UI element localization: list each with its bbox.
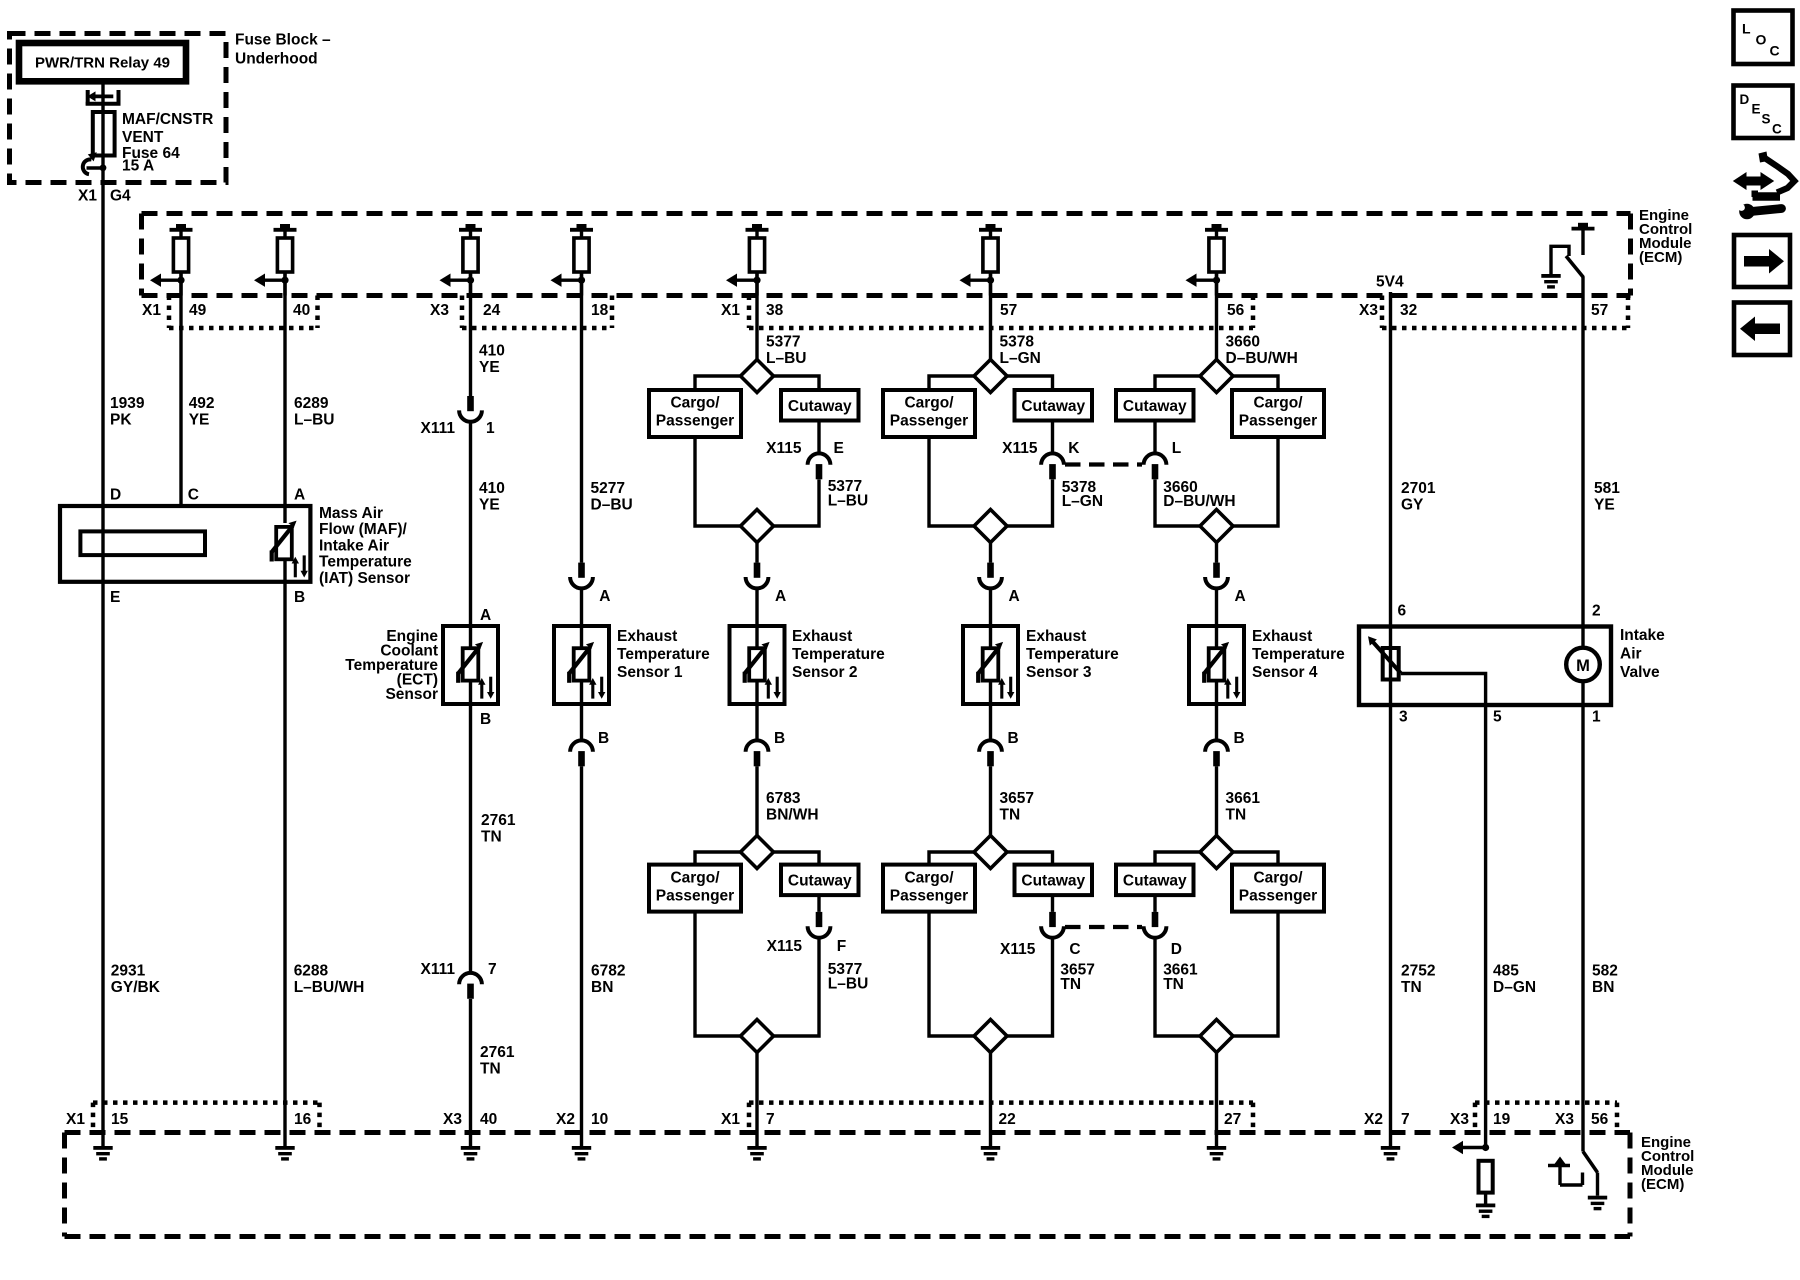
svg-text:BN: BN bbox=[591, 979, 613, 996]
ECM bottom dashed enclosure bbox=[65, 1133, 1631, 1237]
svg-text:Passenger: Passenger bbox=[890, 887, 968, 904]
exhaust temperature sensor 3 internal wire bbox=[989, 626, 992, 649]
ECM bottom connector strip X3 pin 40 bbox=[443, 1111, 497, 1128]
dashed link X115 C to D bbox=[1065, 925, 1142, 929]
wire K to merge W7 bbox=[1007, 480, 1053, 527]
wire label 410 YE upper bbox=[479, 342, 505, 376]
wire label 581 YE bbox=[1594, 480, 1620, 514]
svg-text:K: K bbox=[1068, 440, 1080, 457]
splice diamond W6 top split bbox=[741, 360, 774, 393]
option box Cutaway W6 bottom bbox=[781, 865, 859, 896]
svg-text:Cargo/: Cargo/ bbox=[670, 395, 720, 412]
wire into sensor 2 bbox=[755, 588, 758, 626]
svg-text:18: 18 bbox=[591, 302, 609, 319]
svg-text:5377: 5377 bbox=[766, 333, 800, 350]
svg-text:Passenger: Passenger bbox=[1239, 887, 1317, 904]
wire 3660 D-BU/WH pin 56 to splice bbox=[1215, 272, 1218, 360]
svg-text:1: 1 bbox=[486, 420, 495, 437]
wire 485 D-GN valve pin 5 to ECM pin 19 bbox=[1484, 703, 1487, 1148]
ECM bottom connector strip X2 pin 7 bbox=[1364, 1111, 1410, 1128]
option box Cutaway W7 top bbox=[1015, 390, 1093, 421]
splice diamond W6 bottom split bbox=[741, 836, 774, 869]
svg-text:Sensor 1: Sensor 1 bbox=[617, 664, 683, 681]
ground at ECM pin 19 bbox=[1476, 1204, 1495, 1219]
wire 5378 L-GN pin 57 to splice bbox=[989, 272, 992, 360]
icon LOC bbox=[1734, 11, 1793, 65]
svg-text:A: A bbox=[294, 487, 305, 504]
wire Cargo branch down W7 bottom bbox=[929, 912, 974, 1036]
svg-text:L: L bbox=[1172, 440, 1181, 457]
ECM top connector strip X1 pins 38 57 56 bbox=[721, 296, 1253, 329]
svg-text:Valve: Valve bbox=[1620, 664, 1660, 681]
wire F to merge W6 bottom bbox=[774, 938, 820, 1036]
svg-text:L–BU/WH: L–BU/WH bbox=[294, 979, 365, 996]
svg-text:3657: 3657 bbox=[1000, 790, 1034, 807]
svg-text:X3: X3 bbox=[430, 302, 449, 319]
wire label 492 YE bbox=[189, 395, 215, 429]
wire 5377 L-BU pin 38 to splice bbox=[755, 272, 758, 360]
connector A sensor 4 bbox=[1205, 563, 1228, 589]
connector A sensor 1 bbox=[570, 563, 593, 589]
ECM bottom connector strip X1 pins 15 16 bbox=[66, 1103, 320, 1133]
valve wiper wire to pin 5 bbox=[1401, 674, 1486, 705]
svg-text:56: 56 bbox=[1591, 1111, 1609, 1128]
svg-text:15 A: 15 A bbox=[122, 158, 154, 175]
svg-text:Temperature: Temperature bbox=[792, 646, 885, 663]
svg-text:X1: X1 bbox=[78, 188, 97, 205]
wire merge to ECM pin 22 bbox=[989, 1053, 992, 1147]
svg-text:2752: 2752 bbox=[1401, 962, 1435, 979]
branch wire to Cargo left W6 bbox=[695, 376, 741, 390]
svg-text:F: F bbox=[837, 938, 846, 955]
svg-text:5: 5 bbox=[1493, 709, 1502, 726]
ECM bottom connector strip X2 pin 10 bbox=[556, 1111, 608, 1128]
splice diamond W8 top merge bbox=[1200, 510, 1233, 543]
svg-text:A: A bbox=[1009, 588, 1020, 605]
exhaust temperature sensor 1 thermistor bbox=[569, 642, 605, 699]
label Exhaust Temperature Sensor 4 bbox=[1252, 628, 1345, 681]
svg-text:YE: YE bbox=[189, 411, 210, 428]
wire merge to connector A sensor 2 bbox=[755, 543, 758, 563]
ground at ECM pin 22 bbox=[981, 1146, 1000, 1161]
wire label 582 BN bbox=[1592, 962, 1618, 996]
svg-text:B: B bbox=[294, 589, 305, 606]
wire 410 YE X111 to ECT sensor bbox=[469, 422, 472, 626]
svg-text:6288: 6288 bbox=[294, 962, 329, 979]
svg-text:Cutaway: Cutaway bbox=[1021, 872, 1085, 889]
svg-text:D–BU/WH: D–BU/WH bbox=[1226, 350, 1298, 367]
wire label 5377 L-BU at F bbox=[828, 961, 868, 992]
wire label 5378 L-GN at K bbox=[1062, 479, 1103, 510]
svg-text:Cargo/: Cargo/ bbox=[1253, 395, 1303, 412]
label Exhaust Temperature Sensor 1 bbox=[617, 628, 710, 681]
svg-text:Temperature: Temperature bbox=[319, 554, 412, 571]
valve potentiometer bbox=[1368, 626, 1401, 704]
svg-text:Passenger: Passenger bbox=[890, 413, 968, 430]
branch wire to Cargo left W7 bottom bbox=[929, 852, 974, 865]
connector X111 pin 1 bbox=[459, 396, 482, 422]
svg-text:Passenger: Passenger bbox=[656, 413, 734, 430]
svg-text:PWR/TRN Relay 49: PWR/TRN Relay 49 bbox=[35, 55, 170, 72]
wire Cargo branch down W6 top bbox=[695, 437, 741, 526]
svg-text:10: 10 bbox=[591, 1111, 608, 1128]
option box Cutaway W6 top bbox=[781, 390, 859, 421]
svg-text:19: 19 bbox=[1493, 1111, 1511, 1128]
svg-text:A: A bbox=[775, 588, 786, 605]
fuse MAF/CNSTR VENT Fuse 64 15 A bbox=[93, 111, 213, 175]
wire 3661 TN to splice bbox=[1215, 766, 1218, 835]
ground at ECM pin 16 bbox=[275, 1146, 294, 1161]
option box Cargo/Passenger W7 bottom bbox=[883, 865, 975, 912]
valve motor M bbox=[1566, 626, 1600, 704]
wire label 2701 GY bbox=[1401, 480, 1436, 514]
fusible link hook symbol bbox=[83, 152, 107, 174]
svg-text:X1: X1 bbox=[66, 1111, 85, 1128]
svg-text:GY: GY bbox=[1401, 496, 1424, 513]
splice diamond W8 bottom split bbox=[1200, 836, 1233, 869]
svg-text:7: 7 bbox=[1401, 1111, 1410, 1128]
svg-text:L: L bbox=[1742, 21, 1751, 37]
svg-text:X1: X1 bbox=[721, 302, 740, 319]
svg-text:TN: TN bbox=[1000, 806, 1021, 823]
wire label 3660 D-BU/WH at L bbox=[1163, 479, 1235, 510]
svg-text:TN: TN bbox=[1401, 979, 1422, 996]
relay PWR/TRN Relay 49 bbox=[19, 43, 186, 81]
wire Cargo branch down W8 bottom bbox=[1233, 912, 1278, 1036]
svg-text:D: D bbox=[110, 487, 121, 504]
svg-text:40: 40 bbox=[293, 302, 310, 319]
ECM top connector strip X3 pins 24 18 bbox=[430, 296, 612, 329]
svg-text:M: M bbox=[1576, 657, 1590, 675]
icon arrow left bbox=[1734, 303, 1790, 356]
ECM driver output pin 57 bbox=[960, 224, 1003, 296]
svg-text:Exhaust: Exhaust bbox=[1026, 628, 1086, 645]
wire label 3660 D-BU/WH top bbox=[1226, 333, 1298, 367]
svg-text:485: 485 bbox=[1493, 962, 1519, 979]
svg-text:Cargo/: Cargo/ bbox=[904, 869, 954, 886]
svg-text:X3: X3 bbox=[1555, 1111, 1574, 1128]
wire Cargo branch down W8 top bbox=[1233, 437, 1278, 526]
svg-text:3: 3 bbox=[1399, 709, 1408, 726]
bus bar bracket bbox=[86, 90, 121, 106]
svg-text:Flow (MAF)/: Flow (MAF)/ bbox=[319, 521, 408, 538]
icon arrow right bbox=[1734, 235, 1790, 287]
svg-text:B: B bbox=[598, 730, 609, 747]
svg-text:Sensor: Sensor bbox=[385, 686, 438, 703]
ECM top connector strip X1 pins 49 40 bbox=[142, 296, 318, 329]
wire E to merge W6 bbox=[774, 480, 820, 527]
wire 6782 BN to ECM pin 10 bbox=[580, 766, 583, 1146]
wire C to merge W7 bottom bbox=[1007, 938, 1053, 1036]
svg-text:2761: 2761 bbox=[480, 1044, 515, 1061]
ECM resistor at pin 19 bbox=[1479, 1161, 1493, 1193]
svg-text:Temperature: Temperature bbox=[1252, 646, 1345, 663]
svg-text:B: B bbox=[774, 730, 785, 747]
svg-text:1939: 1939 bbox=[110, 395, 145, 412]
ground at ECM pin 7 bbox=[747, 1146, 766, 1161]
svg-text:2701: 2701 bbox=[1401, 480, 1436, 497]
ECT sensor box bbox=[443, 626, 498, 704]
valve pin numbers bottom bbox=[1399, 709, 1601, 726]
svg-text:E: E bbox=[1752, 102, 1761, 117]
exhaust temperature sensor 3 box bbox=[963, 626, 1018, 704]
svg-text:L–BU: L–BU bbox=[294, 411, 334, 428]
connector B sensor 1 bbox=[580, 704, 583, 741]
connector X115 pin C bbox=[1041, 912, 1064, 938]
svg-text:TN: TN bbox=[481, 828, 502, 845]
svg-text:L–GN: L–GN bbox=[1000, 350, 1041, 367]
option box Cargo/Passenger W8 top bbox=[1232, 390, 1324, 437]
svg-text:Underhood: Underhood bbox=[235, 51, 318, 68]
branch wire to Cutaway right W6 bottom bbox=[774, 852, 820, 865]
svg-text:Mass Air: Mass Air bbox=[319, 505, 383, 522]
svg-text:(ECM): (ECM) bbox=[1641, 1176, 1684, 1193]
svg-text:VENT: VENT bbox=[122, 129, 164, 146]
svg-text:Cargo/: Cargo/ bbox=[1253, 869, 1303, 886]
svg-text:D–GN: D–GN bbox=[1493, 979, 1536, 996]
exhaust temperature sensor 1 internal wire bbox=[580, 626, 583, 649]
svg-text:O: O bbox=[1756, 32, 1767, 48]
wire 2701 GY pin 32 to valve pin 6 bbox=[1389, 292, 1392, 626]
wire label 5377 L-BU at E bbox=[828, 478, 868, 509]
label Fuse Block - Underhood bbox=[235, 32, 331, 68]
valve pin numbers top bbox=[1398, 603, 1601, 620]
wire Cutaway branch to X115 F bbox=[817, 895, 820, 912]
ECM driver output pin 40 bbox=[254, 224, 297, 296]
svg-text:3661: 3661 bbox=[1226, 790, 1261, 807]
ECM bottom connector strip X1 pins 7 22 27 bbox=[721, 1103, 1253, 1133]
svg-text:6289: 6289 bbox=[294, 395, 329, 412]
svg-text:22: 22 bbox=[999, 1111, 1016, 1128]
ECM driver output pin 24 bbox=[440, 224, 483, 296]
svg-text:Cutaway: Cutaway bbox=[1021, 398, 1085, 415]
MAF element bbox=[80, 531, 205, 555]
svg-text:D–BU/WH: D–BU/WH bbox=[1163, 493, 1235, 510]
wire merge to connector A sensor 4 bbox=[1215, 543, 1218, 563]
wire label 1939 PK bbox=[110, 395, 145, 429]
wire label 3657 TN bbox=[1000, 790, 1034, 824]
MAF pin letters bbox=[110, 487, 305, 607]
svg-text:X1: X1 bbox=[142, 302, 161, 319]
svg-text:G4: G4 bbox=[110, 188, 131, 205]
IAT thermistor bbox=[272, 521, 308, 578]
svg-text:TN: TN bbox=[1226, 806, 1247, 823]
branch wire to Cargo right W8 bottom bbox=[1233, 852, 1278, 865]
svg-text:L–GN: L–GN bbox=[1062, 493, 1103, 510]
connector X111 pin 7 bbox=[459, 973, 482, 999]
ECM driver output pin 56 bbox=[1186, 224, 1229, 296]
svg-text:Exhaust: Exhaust bbox=[1252, 628, 1312, 645]
wire 2761 TN ECT to X111 pin 7 bbox=[469, 704, 472, 973]
branch wire to Cargo right W8 bbox=[1233, 376, 1278, 390]
splice diamond W8 top split bbox=[1200, 360, 1233, 393]
wire merge to ECM pin 27 bbox=[1215, 1053, 1218, 1147]
wire label 5378 L-GN top bbox=[1000, 333, 1041, 367]
ECM top connector strip X3 pins 32 57 bbox=[1359, 296, 1628, 329]
ground at ECM pin 40 bbox=[461, 1146, 480, 1161]
svg-text:TN: TN bbox=[1163, 976, 1184, 993]
ECM bottom connector strip X3 pins 19 56 bbox=[1450, 1103, 1617, 1133]
svg-text:Cutaway: Cutaway bbox=[788, 398, 852, 415]
svg-text:PK: PK bbox=[110, 411, 132, 428]
svg-text:Sensor 2: Sensor 2 bbox=[792, 664, 857, 681]
svg-text:Sensor 4: Sensor 4 bbox=[1252, 664, 1318, 681]
svg-text:C: C bbox=[1770, 43, 1780, 59]
wire label 5377 L-BU top bbox=[766, 333, 806, 367]
exhaust temperature sensor 4 thermistor bbox=[1204, 642, 1240, 699]
svg-text:40: 40 bbox=[480, 1111, 497, 1128]
wire into sensor 3 bbox=[989, 588, 992, 626]
exhaust temperature sensor 4 internal wire bbox=[1215, 626, 1218, 649]
wire 2931 GY/BK MAF pin E to ECM pin 15 bbox=[101, 582, 104, 1146]
svg-text:A: A bbox=[480, 607, 491, 624]
svg-text:Sensor 3: Sensor 3 bbox=[1026, 664, 1092, 681]
ECM top dashed enclosure bbox=[142, 214, 1631, 296]
svg-text:Cutaway: Cutaway bbox=[1123, 398, 1187, 415]
label Engine Control Module ECM top bbox=[1639, 207, 1692, 266]
branch wire to Cutaway right W7 bbox=[1007, 376, 1053, 390]
wire 492 YE pin 49 to MAF pin C bbox=[179, 272, 182, 531]
connector X115 pin F bbox=[808, 912, 831, 938]
svg-text:2: 2 bbox=[1592, 603, 1601, 620]
exhaust temperature sensor 4 box bbox=[1189, 626, 1244, 704]
svg-text:X1: X1 bbox=[721, 1111, 740, 1128]
splice diamond W7 bottom merge bbox=[974, 1020, 1007, 1053]
wire pin D through MAF bbox=[101, 506, 104, 582]
svg-text:410: 410 bbox=[479, 480, 505, 497]
svg-text:Intake: Intake bbox=[1620, 627, 1665, 644]
svg-text:X2: X2 bbox=[1364, 1111, 1383, 1128]
wire Cutaway branch to X115 E bbox=[817, 421, 820, 454]
svg-text:X115: X115 bbox=[766, 440, 802, 457]
svg-text:38: 38 bbox=[766, 302, 784, 319]
ECM driver output pin 49 bbox=[150, 224, 193, 296]
svg-text:492: 492 bbox=[189, 395, 215, 412]
svg-text:D–BU: D–BU bbox=[591, 496, 633, 513]
labels X1 G4 bbox=[78, 188, 131, 205]
wire Cargo branch down W6 bottom bbox=[695, 912, 741, 1036]
svg-text:X2: X2 bbox=[556, 1111, 575, 1128]
exhaust temperature sensor 2 box bbox=[730, 626, 785, 704]
option box Cutaway W8 top bbox=[1116, 390, 1194, 421]
svg-text:C: C bbox=[188, 487, 199, 504]
svg-text:27: 27 bbox=[1224, 1111, 1241, 1128]
svg-text:Exhaust: Exhaust bbox=[792, 628, 852, 645]
ground at ECM pin 10 bbox=[572, 1146, 591, 1161]
wire 410 YE pin 24 to connector X111 bbox=[469, 272, 472, 396]
svg-text:(IAT) Sensor: (IAT) Sensor bbox=[319, 570, 410, 587]
wire label 410 YE lower bbox=[479, 480, 505, 514]
wire label 2761 TN upper bbox=[481, 812, 516, 846]
svg-text:6782: 6782 bbox=[591, 962, 625, 979]
connector X115 pin D bbox=[1144, 912, 1167, 938]
ECT sensor internal wire bbox=[469, 626, 472, 649]
svg-text:L–BU: L–BU bbox=[766, 350, 806, 367]
ECM pullup arrow at pin 19 bbox=[1452, 1141, 1489, 1154]
svg-text:B: B bbox=[1008, 730, 1019, 747]
svg-text:Cargo/: Cargo/ bbox=[904, 395, 954, 412]
label Engine Control Module ECM bottom bbox=[1641, 1134, 1694, 1193]
svg-text:X115: X115 bbox=[1000, 941, 1036, 958]
option box Cargo/Passenger W6 top bbox=[649, 390, 741, 437]
svg-text:581: 581 bbox=[1594, 480, 1620, 497]
ECM switch at pin 56 bottom bbox=[1583, 1152, 1598, 1196]
svg-text:S: S bbox=[1762, 112, 1771, 127]
wire label 3661 TN bbox=[1226, 790, 1261, 824]
svg-text:Fuse Block –: Fuse Block – bbox=[235, 32, 331, 49]
wire L to merge W8 bbox=[1155, 480, 1200, 527]
svg-text:6783: 6783 bbox=[766, 790, 801, 807]
svg-text:D: D bbox=[1740, 92, 1750, 107]
branch wire to Cutaway right W6 bbox=[774, 376, 820, 390]
wire label 2761 TN lower bbox=[480, 1044, 515, 1078]
ECM driver output pin 18 bbox=[551, 224, 594, 296]
svg-text:57: 57 bbox=[1591, 302, 1608, 319]
wire label 6288 L-BU/WH bbox=[294, 962, 365, 996]
svg-text:B: B bbox=[480, 711, 491, 728]
option box Cutaway W8 bottom bbox=[1116, 865, 1194, 896]
svg-text:7: 7 bbox=[766, 1111, 775, 1128]
label Mass Air Flow MAF IAT Sensor bbox=[319, 505, 412, 587]
ground at ECM pin 15 bbox=[93, 1146, 112, 1161]
svg-text:5378: 5378 bbox=[1000, 333, 1035, 350]
branch wire to Cutaway right W7 bottom bbox=[1007, 852, 1053, 865]
svg-text:(ECM): (ECM) bbox=[1639, 249, 1682, 266]
wire resistor to ground pin 19 bbox=[1484, 1193, 1487, 1204]
dashed link X115 K to L bbox=[1065, 462, 1142, 466]
wire 6289 L-BU pin 40 to MAF pin A bbox=[283, 272, 286, 506]
svg-text:2761: 2761 bbox=[481, 812, 516, 829]
svg-text:L–BU: L–BU bbox=[828, 493, 868, 510]
svg-text:X3: X3 bbox=[1450, 1111, 1469, 1128]
wire 1939 PK fuse block to MAF pin D bbox=[101, 183, 104, 506]
ground at ECM pin 56 bbox=[1588, 1196, 1607, 1211]
svg-text:BN: BN bbox=[1592, 979, 1614, 996]
svg-text:2931: 2931 bbox=[111, 962, 146, 979]
ground at ECM X2 pin 7 bbox=[1381, 1146, 1400, 1161]
splice diamond W7 top merge bbox=[974, 510, 1007, 543]
wire 6288 L-BU/WH MAF pin B to ECM pin 16 bbox=[283, 582, 286, 1146]
wire into sensor 1 bbox=[580, 588, 583, 626]
splice diamond W7 top split bbox=[974, 360, 1007, 393]
wire Cutaway branch to X115 C bbox=[1051, 895, 1054, 912]
ECT sensor thermistor bbox=[458, 642, 494, 699]
wire label 485 D-GN bbox=[1493, 962, 1536, 996]
branch wire to Cargo left W7 bbox=[929, 376, 974, 390]
svg-text:6: 6 bbox=[1398, 603, 1407, 620]
svg-text:YE: YE bbox=[1594, 496, 1615, 513]
svg-text:5277: 5277 bbox=[591, 480, 625, 497]
exhaust temperature sensor 2 thermistor bbox=[745, 642, 781, 699]
svg-text:16: 16 bbox=[294, 1111, 312, 1128]
svg-text:YE: YE bbox=[479, 359, 500, 376]
wire Cutaway branch to X115 D bbox=[1153, 895, 1156, 912]
wire merge to ECM pin 7 bbox=[755, 1053, 758, 1147]
ECM driver output pin 38 bbox=[726, 224, 769, 296]
svg-text:Cutaway: Cutaway bbox=[788, 872, 852, 889]
svg-text:MAF/CNSTR: MAF/CNSTR bbox=[122, 111, 213, 128]
label Engine Coolant Temperature ECT Sensor bbox=[345, 628, 438, 703]
svg-text:TN: TN bbox=[480, 1060, 501, 1077]
icon DESC bbox=[1734, 86, 1793, 139]
svg-text:E: E bbox=[110, 589, 120, 606]
connector B sensor 3 bbox=[989, 704, 992, 741]
wire label 2931 GY/BK bbox=[111, 962, 161, 996]
svg-text:L–BU: L–BU bbox=[828, 976, 868, 993]
splice diamond W6 top merge bbox=[741, 510, 774, 543]
svg-text:E: E bbox=[834, 440, 844, 457]
svg-text:TN: TN bbox=[1060, 976, 1081, 993]
